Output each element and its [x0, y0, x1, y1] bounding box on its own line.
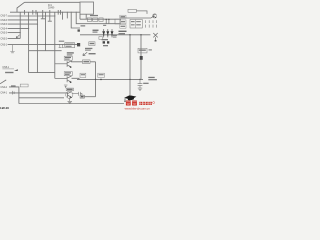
junction dots on rail — [95, 79, 96, 80]
wire column G2 x76.2 elbow — [76, 12, 80, 24]
wire CN row7 — [8, 43, 55, 45]
box R bottom — [80, 95, 84, 98]
svg-text:CN3-2: CN3-2 — [0, 37, 7, 40]
arrow on row6 — [16, 35, 19, 38]
pin stubs on bus — [25, 10, 61, 15]
svg-text:IC1: IC1 — [48, 4, 53, 7]
capacitor row right x145-157 — [146, 20, 157, 27]
wire extension through cluster — [55, 43, 79, 45]
wire column B x28.6 — [28, 12, 30, 72]
svg-text:CN4-2: CN4-2 — [0, 86, 7, 89]
column x130 — [129, 35, 131, 95]
red small text 电子下载 — [139, 102, 152, 105]
IC U1 box — [80, 2, 94, 14]
text right of diodes — [113, 35, 117, 36]
wire top line — [25, 1, 81, 3]
text above diodes — [93, 30, 99, 31]
small dark blob x78 y30 — [78, 29, 80, 31]
Q3 collector wire caps — [72, 92, 82, 96]
text above boxes — [90, 15, 98, 16]
transistor Q2 label — [64, 72, 72, 76]
note box — [20, 84, 28, 87]
capacitor C1 stub — [41, 10, 45, 19]
text block right x118 y30 — [119, 31, 127, 32]
small text right of CN4-2 — [11, 85, 16, 86]
wire mid horizontal y50.7 — [29, 50, 62, 52]
wire column G x71.2 elbow — [71, 12, 80, 28]
Q3 emitter ground — [68, 98, 73, 104]
svg-text:CN4-1: CN4-1 — [0, 92, 7, 95]
transistor Q1 — [55, 61, 72, 67]
wire CN row4 — [8, 27, 29, 29]
TY text — [67, 52, 74, 53]
column x141 — [140, 35, 142, 80]
wire column E x54.8 — [54, 12, 56, 78]
bottom border — [19, 103, 124, 105]
cap on wire L2 — [13, 91, 14, 95]
wire corner diagonal — [17, 2, 25, 12]
text under rail — [81, 25, 86, 26]
text above cluster — [59, 41, 64, 42]
wire CN row1 — [8, 15, 55, 17]
right connector stack x120 — [120, 15, 126, 28]
wire L2 — [9, 92, 68, 94]
cap to ground right — [138, 79, 143, 90]
graduation cap logo black — [124, 95, 136, 100]
bottom rail y79.4 — [77, 78, 143, 80]
label box under diodes — [89, 42, 95, 46]
wire L1 — [9, 87, 19, 104]
Q1 collector wire to R box — [72, 60, 96, 63]
resistor R box — [83, 60, 91, 64]
diode D1 — [102, 29, 113, 37]
svg-text:CN3-5: CN3-5 — [0, 23, 7, 26]
capacitor C2 stub — [48, 10, 52, 21]
boxes above bottom rail — [80, 73, 86, 77]
wire CN row5 — [8, 32, 21, 34]
column x95.5 — [95, 62, 97, 97]
svg-text:CN3-6: CN3-6 — [0, 19, 7, 22]
dark squares — [103, 41, 105, 43]
wire CN row3 — [8, 23, 38, 25]
resistor R10 top right — [128, 9, 136, 12]
red logo char 1 — [126, 101, 137, 106]
transistor Q3 label — [66, 88, 73, 91]
wire column F2 x67.3 — [66, 12, 68, 19]
wire y97.8 — [19, 97, 64, 99]
wire column C x37.4 — [36, 12, 38, 72]
svg-text:CN3-7: CN3-7 — [0, 15, 7, 18]
red trademark — [153, 102, 155, 104]
wire mid horizontal y72.6 — [29, 72, 55, 74]
transistor Q1 label — [64, 56, 72, 60]
arrow LED mid-low — [83, 52, 87, 55]
dark blob right of cluster — [77, 43, 80, 46]
left connector labels CN3-x — [0, 15, 7, 47]
dark blob on x141 — [140, 56, 143, 60]
wire column F x62.5 — [62, 12, 64, 20]
transistor Q5 top right — [153, 14, 157, 18]
rail A y19.2 — [80, 18, 120, 20]
box on x141 — [138, 48, 147, 53]
ground under CN3-1 — [10, 45, 14, 53]
svg-text:LW-10: LW-10 — [0, 106, 9, 110]
rail B y23.7 — [80, 23, 120, 25]
svg-text:www.bbs-dz.com.cn: www.bbs-dz.com.cn — [125, 107, 150, 110]
component boxes on rail y19.2 — [87, 18, 120, 24]
cap ticks on wire — [59, 44, 64, 47]
diagonal wire bottom left — [0, 80, 6, 84]
wire column H x80 — [79, 14, 81, 19]
svg-text:CN3-3: CN3-3 — [0, 32, 7, 35]
dark blob — [14, 69, 18, 71]
wire column D x45.5 — [45, 12, 47, 51]
junction dots on diode rail — [129, 34, 130, 35]
svg-text:D2499: D2499 — [48, 8, 55, 10]
junction dots left — [20, 15, 56, 45]
wire CN row2 — [8, 19, 38, 21]
relay box right — [130, 20, 142, 29]
wire column I x86.2 — [85, 14, 87, 19]
junction ticks x106.2 x108.9 — [106, 19, 109, 24]
wire column A x20 — [19, 12, 21, 38]
transistor Q2 — [55, 76, 72, 82]
wire box to column — [84, 96, 95, 98]
cluster box middle — [65, 43, 75, 48]
svg-text:CN3-1: CN3-1 — [0, 43, 7, 46]
transistor Q3 — [66, 91, 73, 98]
svg-text:CN3-4: CN3-4 — [0, 27, 7, 30]
wire top bus — [10, 11, 80, 13]
X mark right end — [153, 33, 157, 40]
wire CN row6 — [8, 38, 21, 40]
diode rail y34.8 — [80, 34, 150, 36]
cap top of Q3 — [64, 85, 68, 88]
